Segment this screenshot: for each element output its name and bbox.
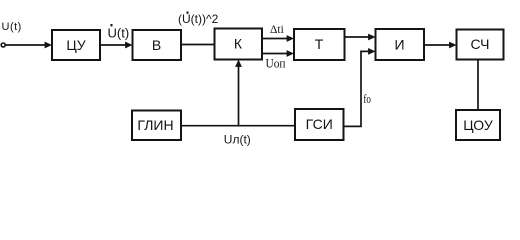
wire Т to И xyxy=(345,34,376,41)
block В xyxy=(133,30,182,60)
wire junction up to К with arrow xyxy=(235,60,242,126)
svg-text:ЦОУ: ЦОУ xyxy=(463,117,493,133)
input terminal circle xyxy=(1,43,5,47)
svg-text:U(t): U(t) xyxy=(2,21,22,33)
block ГЛИН xyxy=(132,111,181,141)
wire СЧ to ЦОУ xyxy=(477,60,479,111)
block К xyxy=(215,29,263,60)
block СЧ xyxy=(457,30,504,60)
wire К to Т upper output Δti xyxy=(262,35,294,42)
svg-text:Uоп: Uоп xyxy=(266,56,286,71)
svg-text:СЧ: СЧ xyxy=(471,36,490,52)
block И xyxy=(376,29,425,60)
wire В to К xyxy=(181,44,215,46)
block ЦОУ xyxy=(456,110,500,140)
svg-text:К: К xyxy=(234,36,243,52)
label (U-dot(t))^2 xyxy=(178,12,219,27)
wire input terminal to ЦУ xyxy=(5,42,52,49)
wire ГЛИН to ГСИ xyxy=(181,125,295,127)
block ГСИ xyxy=(295,109,344,140)
svg-text:И: И xyxy=(394,36,404,52)
svg-text:Δti: Δti xyxy=(270,24,284,36)
svg-text:ЦУ: ЦУ xyxy=(66,37,85,53)
svg-text:ГСИ: ГСИ xyxy=(306,116,333,132)
wire ЦУ to В xyxy=(100,42,133,49)
wire К to Т lower output Uоп xyxy=(262,50,294,57)
wire И to СЧ xyxy=(424,42,457,49)
svg-text:U(t): U(t) xyxy=(108,25,130,40)
label U-dot(t) xyxy=(108,24,130,40)
svg-text:В: В xyxy=(152,37,161,53)
wire ГСИ up to И (fо) xyxy=(344,48,376,126)
svg-text:Uл(t): Uл(t) xyxy=(224,132,251,146)
block ЦУ xyxy=(52,30,100,60)
svg-text:fo: fo xyxy=(363,91,371,106)
svg-text:ГЛИН: ГЛИН xyxy=(137,117,173,133)
svg-text:Т: Т xyxy=(315,36,324,52)
block Т xyxy=(294,29,345,60)
svg-text:(U(t))^2: (U(t))^2 xyxy=(178,12,219,26)
